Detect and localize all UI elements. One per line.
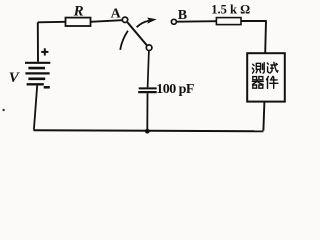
wire resistor R to switch A: [91, 20, 123, 22]
plus sign: [41, 48, 48, 55]
switch lower contact: [146, 45, 152, 51]
wire left vertical (top rail down to battery): [37, 22, 39, 62]
device label line2: 器件: [252, 76, 278, 88]
测 char: [252, 63, 264, 74]
switch pivot contact A: [122, 17, 127, 22]
stray scan dot: [2, 109, 4, 111]
svg-text:100 pF: 100 pF: [156, 82, 194, 97]
arrowhead: [147, 18, 157, 24]
terminal B contact: [171, 19, 176, 24]
svg-text:R: R: [73, 4, 84, 20]
capacitor plates: [139, 87, 157, 89]
wire switch contact down to capacitor: [148, 51, 149, 88]
器 char: [252, 77, 263, 89]
wire right vertical to device box: [264, 20, 267, 53]
switch motion arc upper segment with arrowhead: [137, 21, 149, 28]
junction node dot: [145, 129, 150, 134]
minus sign: [44, 86, 50, 89]
svg-text:A: A: [111, 7, 122, 22]
device box: [247, 53, 285, 101]
wire battery stem down: [34, 86, 37, 130]
svg-text:1.5 k Ω: 1.5 k Ω: [211, 3, 250, 17]
resistor R body: [66, 18, 91, 26]
battery V plates: [25, 63, 50, 85]
resistor 1.5k body: [216, 18, 241, 25]
wire top-left rail (battery top to resistor R): [38, 21, 66, 24]
switch motion arc lower segment: [120, 31, 128, 50]
wire 1.5k resistor to right corner: [241, 20, 266, 22]
试 char: [267, 62, 278, 73]
device label line1: 测试: [252, 62, 278, 73]
switch arm blade: [127, 22, 146, 45]
件 char: [267, 76, 278, 88]
wire device box bottom to bottom rail: [263, 102, 264, 131]
wire B to 1.5k resistor: [177, 20, 217, 23]
wire bottom rail: [33, 130, 263, 131]
wire capacitor to bottom rail: [146, 93, 148, 131]
